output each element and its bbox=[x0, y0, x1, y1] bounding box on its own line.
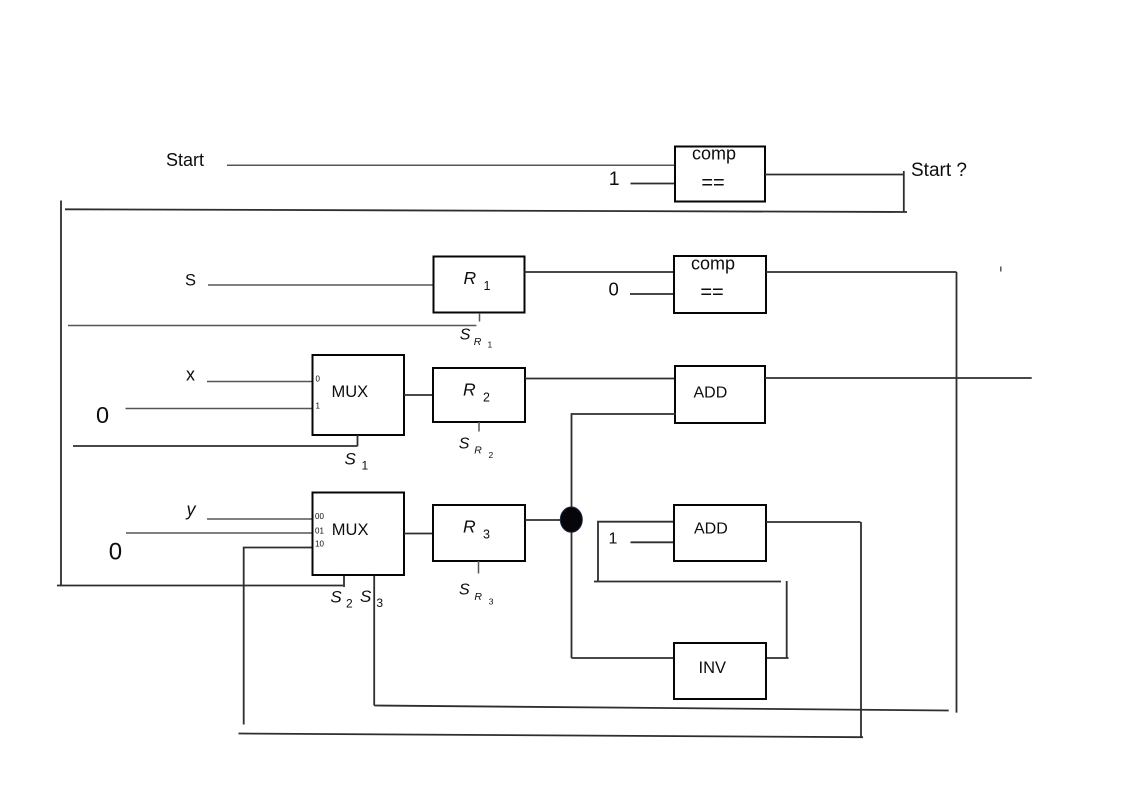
wire comp U1 output to Start? bbox=[765, 174, 904, 176]
svg-text:01: 01 bbox=[315, 527, 324, 536]
wire MUX M2 output to R3 bbox=[404, 533, 433, 535]
wire R1 output to comp U2 bbox=[525, 271, 676, 273]
svg-text:==: == bbox=[700, 281, 723, 303]
wire ADD A2 output vertical down bbox=[860, 522, 862, 737]
wire node to INV input bbox=[572, 657, 676, 659]
svg-text:INV: INV bbox=[699, 659, 727, 677]
svg-text:comp: comp bbox=[691, 254, 735, 274]
svg-text:R: R bbox=[464, 268, 477, 288]
svg-text:x: x bbox=[186, 364, 195, 384]
wire Start to comp U1 bbox=[227, 164, 676, 166]
wire S to register R1 bbox=[208, 284, 434, 286]
wire INV output horizontal back bbox=[594, 581, 781, 583]
svg-text:3: 3 bbox=[376, 596, 383, 610]
svg-text:R: R bbox=[463, 380, 476, 400]
svg-text:0: 0 bbox=[316, 374, 321, 383]
label S_2 bbox=[330, 587, 353, 610]
wire Start? feedback long horizontal bbox=[65, 209, 907, 212]
wire ADD A1 output bbox=[765, 377, 1032, 379]
wire bottom feedback horizontal bbox=[239, 734, 864, 738]
register R2 bbox=[433, 368, 525, 422]
svg-text:MUX: MUX bbox=[332, 383, 369, 401]
svg-text:3: 3 bbox=[483, 528, 490, 542]
wire MUX M2 control tick S2 bbox=[343, 576, 345, 587]
wire control S3 slanted horizontal bbox=[374, 706, 949, 711]
svg-text:0: 0 bbox=[609, 279, 619, 300]
stray tick mark bbox=[1000, 267, 1002, 272]
wire 0 to MUX M1 bbox=[126, 408, 314, 410]
wire ADD A2 output right bbox=[766, 521, 861, 523]
wire feedback to MUX M2 input 10 bbox=[244, 548, 313, 725]
svg-text:10: 10 bbox=[315, 540, 324, 549]
svg-text:2: 2 bbox=[346, 596, 353, 610]
svg-text:Start ?: Start ? bbox=[911, 160, 967, 181]
svg-text:R: R bbox=[463, 517, 476, 537]
wire 0 to comp U2 bbox=[630, 293, 675, 295]
wire x to MUX M1 bbox=[207, 381, 313, 383]
svg-text:0: 0 bbox=[109, 538, 122, 565]
svg-text:1: 1 bbox=[484, 279, 491, 293]
ADD A1 bbox=[675, 366, 765, 423]
svg-text:S: S bbox=[360, 587, 372, 606]
label S_1 bbox=[345, 450, 369, 473]
svg-text:R: R bbox=[474, 591, 482, 603]
wire comp U2 output right bbox=[766, 271, 957, 273]
svg-text:S: S bbox=[185, 272, 196, 290]
inverter INV bbox=[674, 643, 766, 699]
svg-text:ADD: ADD bbox=[694, 521, 728, 538]
wire INV loop up to ADD A2 input bbox=[598, 522, 676, 581]
svg-text:==: == bbox=[701, 172, 724, 194]
node junction dot bbox=[560, 507, 582, 532]
wire node to ADD A1 second input bbox=[572, 414, 677, 658]
wire R2 output to ADD A1 bbox=[525, 378, 676, 380]
wire control S1 horizontal bbox=[73, 445, 357, 447]
svg-text:1: 1 bbox=[609, 168, 620, 190]
wire comp U2 output vertical down bbox=[956, 272, 958, 713]
ADD A2 bbox=[674, 505, 766, 561]
svg-text:ADD: ADD bbox=[694, 385, 728, 402]
wire R1 control tick bbox=[479, 313, 481, 322]
label S_R2 bbox=[459, 435, 494, 460]
svg-text:y: y bbox=[185, 500, 197, 520]
wire Start? vertical drop bbox=[903, 171, 905, 213]
wire control S3 vertical bbox=[373, 576, 375, 706]
wire R3 output to node bbox=[525, 519, 561, 521]
wire 0 to MUX M2 bbox=[126, 532, 313, 534]
MUX M1 bbox=[313, 355, 405, 435]
svg-text:Start: Start bbox=[166, 150, 204, 170]
svg-text:R: R bbox=[474, 445, 482, 457]
wire INV output stub bbox=[766, 657, 789, 659]
wire 1 to comp U1 bbox=[631, 183, 677, 185]
svg-text:2: 2 bbox=[483, 391, 490, 405]
svg-text:3: 3 bbox=[489, 596, 494, 606]
wire R3 control tick bbox=[478, 561, 480, 574]
comparator U1 bbox=[675, 144, 765, 202]
MUX M2 bbox=[313, 493, 405, 576]
svg-text:S: S bbox=[459, 435, 470, 452]
wire MUX M1 output to R2 bbox=[404, 394, 433, 396]
svg-text:S: S bbox=[345, 450, 357, 469]
svg-text:1: 1 bbox=[362, 458, 369, 472]
wire left vertical bus bbox=[60, 201, 62, 586]
svg-text:S: S bbox=[460, 326, 471, 343]
wire y to MUX M2 bbox=[207, 518, 313, 520]
svg-text:comp: comp bbox=[692, 144, 736, 164]
svg-text:R: R bbox=[474, 336, 482, 348]
svg-text:2: 2 bbox=[489, 450, 494, 460]
svg-text:1: 1 bbox=[488, 339, 493, 349]
wire R2 control tick bbox=[478, 422, 480, 432]
label S_3 bbox=[360, 587, 383, 610]
wire MUX M1 control tick bbox=[357, 435, 359, 446]
register R1 bbox=[434, 257, 525, 313]
register R3 bbox=[433, 505, 525, 561]
svg-text:S: S bbox=[330, 587, 342, 606]
svg-text:MUX: MUX bbox=[332, 521, 369, 539]
wire INV output vertical bbox=[786, 581, 788, 658]
svg-text:1: 1 bbox=[316, 401, 321, 410]
svg-text:0: 0 bbox=[96, 402, 109, 428]
wire control S2 horizontal bbox=[57, 585, 343, 587]
wire 1 to ADD A2 bbox=[631, 541, 676, 543]
svg-text:00: 00 bbox=[315, 512, 324, 521]
comparator U2 bbox=[674, 254, 766, 314]
wire control S_R1 horizontal bbox=[68, 325, 476, 327]
svg-text:1: 1 bbox=[609, 530, 618, 547]
svg-text:S: S bbox=[459, 582, 470, 599]
label S_R3 bbox=[459, 582, 494, 607]
label S_R1 bbox=[460, 326, 493, 349]
